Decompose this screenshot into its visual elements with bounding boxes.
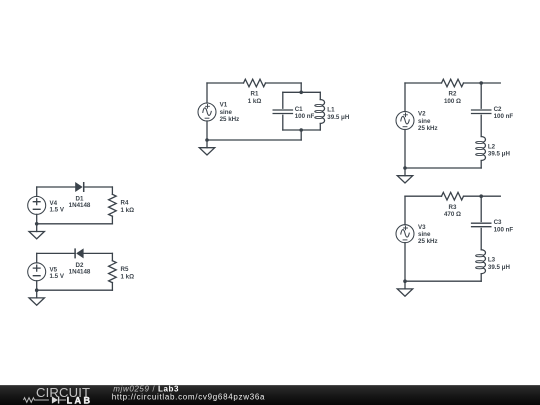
svg-text:L1: L1 [327, 107, 335, 114]
wire top rail to D2 [37, 252, 75, 254]
capacitor C3 [472, 219, 514, 233]
svg-text:V3: V3 [418, 224, 426, 231]
svg-text:L2: L2 [488, 144, 496, 151]
wire L3 bottom lead [480, 274, 482, 282]
svg-text:C2: C2 [494, 106, 502, 113]
diode D2 [69, 248, 91, 275]
svg-text:V1: V1 [220, 102, 228, 109]
node tank top junction [299, 91, 303, 95]
capacitor C2 [472, 106, 514, 120]
node V2 ground junction [403, 166, 407, 170]
wire C1 top lead [282, 92, 284, 108]
wire V5 bottom lead [36, 281, 38, 290]
svg-text:V2: V2 [418, 111, 426, 118]
wire bottom rail [405, 167, 481, 169]
wire down to tank top [300, 83, 302, 92]
svg-text:http://circuitlab.com/cv9g684p: http://circuitlab.com/cv9g684pzw36a [112, 393, 265, 402]
logo resistor zigzag [24, 398, 49, 403]
svg-text:39.5 μH: 39.5 μH [488, 264, 511, 271]
wire V2 top lead [404, 83, 406, 112]
svg-text:R5: R5 [121, 266, 129, 273]
wire top rail left [207, 82, 244, 84]
wire C3-L3 link [480, 228, 482, 249]
svg-text:1.5 V: 1.5 V [50, 273, 65, 280]
inductor L1 [315, 100, 350, 124]
svg-text:R4: R4 [121, 200, 129, 207]
svg-text:470 Ω: 470 Ω [444, 211, 461, 218]
svg-text:100 Ω: 100 Ω [444, 98, 461, 105]
voltage source V2 (sine) [396, 111, 438, 132]
ground [29, 290, 44, 305]
voltage source V3 (sine) [396, 224, 438, 245]
ground [397, 281, 412, 296]
svg-text:R1: R1 [251, 91, 259, 98]
node V1 ground junction [205, 138, 209, 142]
svg-text:1 kΩ: 1 kΩ [121, 273, 135, 280]
wire V3 top lead [404, 196, 406, 225]
wire C3 top lead [480, 196, 482, 221]
wire D2 to corner [84, 252, 113, 254]
node V5 ground junction [35, 288, 39, 292]
voltage source V4 (DC) [28, 196, 65, 214]
logo wire to LAB [59, 399, 66, 401]
resistor R2 [442, 79, 464, 105]
svg-text:100 nF: 100 nF [494, 113, 514, 120]
svg-text:sine: sine [220, 109, 233, 116]
svg-text:25 kHz: 25 kHz [418, 238, 438, 245]
svg-text:25 kHz: 25 kHz [220, 116, 240, 123]
svg-text:C3: C3 [494, 219, 502, 226]
wire bottom rail [207, 139, 301, 141]
node V4 ground junction [35, 222, 39, 226]
wire top rail left [405, 82, 442, 84]
svg-text:R2: R2 [449, 91, 457, 98]
wire tank bottom edge [283, 129, 321, 131]
resistor R4 [109, 194, 135, 216]
wire L1 bottom lead [319, 124, 321, 131]
svg-text:1 kΩ: 1 kΩ [248, 98, 262, 105]
svg-text:1.5 V: 1.5 V [50, 207, 65, 214]
svg-text:39.5 μH: 39.5 μH [488, 151, 511, 158]
svg-text:25 kHz: 25 kHz [418, 125, 438, 132]
wire top rail right stub [464, 195, 501, 197]
wire top rail right stub [464, 82, 501, 84]
wire C2-L2 link [480, 115, 482, 136]
svg-text:C1: C1 [295, 106, 303, 113]
resistor R5 [109, 261, 135, 283]
wire D1 to corner [84, 186, 113, 188]
wire R4 top lead [111, 187, 113, 194]
wire bottom rail [37, 223, 113, 225]
voltage source V5 (DC) [28, 263, 65, 281]
wire V4 bottom lead [36, 214, 38, 223]
svg-text:100 nF: 100 nF [494, 226, 514, 233]
resistor R1 [244, 79, 266, 105]
wire V4 top lead [36, 187, 38, 196]
svg-text:1 kΩ: 1 kΩ [121, 207, 135, 214]
wire V5 top lead [36, 253, 38, 262]
svg-text:L3: L3 [488, 257, 496, 264]
voltage source V1 (sine) [198, 102, 239, 123]
ground [29, 224, 44, 239]
wire top rail right [266, 82, 302, 84]
capacitor C1 [273, 106, 314, 120]
svg-text:R3: R3 [449, 204, 457, 211]
wire bottom rail [405, 280, 481, 282]
svg-text:39.5 μH: 39.5 μH [327, 114, 350, 121]
wire L2 bottom lead [480, 161, 482, 169]
svg-text:100 nF: 100 nF [295, 113, 315, 120]
wire R5 bottom lead [111, 283, 113, 291]
wire V1 top lead [206, 83, 208, 103]
wire tank top edge [283, 91, 321, 93]
wire V1 bottom lead [206, 121, 208, 140]
wire R5 top lead [111, 253, 113, 260]
svg-text:LAB: LAB [67, 395, 93, 405]
wire bottom rail [37, 289, 113, 291]
node V3 ground junction [403, 279, 407, 283]
wire V2 bottom lead [404, 130, 406, 169]
diode D1 [69, 182, 91, 209]
wire top rail to D1 [37, 186, 75, 188]
wire C2 top lead [480, 83, 482, 108]
ground [199, 140, 214, 155]
node R3-C3 junction [479, 194, 483, 198]
resistor R3 [442, 192, 464, 218]
node R2-C2 junction [479, 81, 483, 85]
wire C1 bottom lead [282, 115, 284, 130]
inductor L3 [476, 250, 511, 274]
wire tank to bottom rail [300, 130, 302, 140]
wire top rail left [405, 195, 442, 197]
logo diode [52, 396, 58, 403]
wire L1 top lead [319, 92, 321, 99]
svg-text:sine: sine [418, 118, 431, 125]
ground [397, 168, 412, 183]
node tank bottom junction [299, 128, 303, 132]
wire R4 bottom lead [111, 216, 113, 224]
inductor L2 [476, 137, 511, 161]
svg-text:1N4148: 1N4148 [69, 202, 91, 209]
wire V3 bottom lead [404, 243, 406, 282]
svg-text:1N4148: 1N4148 [69, 269, 91, 276]
svg-text:sine: sine [418, 231, 431, 238]
